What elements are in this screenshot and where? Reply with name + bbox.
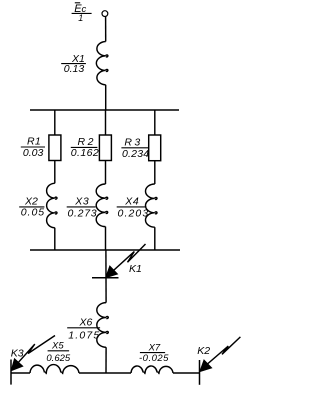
overbar of Ec (75, 2, 80, 4)
bottom line middle segment (79, 372, 131, 374)
fraction bar R2 (71, 146, 98, 148)
svg-text:-0.025: -0.025 (139, 353, 169, 364)
wire bus to R1 (54, 110, 56, 135)
fault location tick K1 (92, 277, 119, 279)
svg-text:0.162: 0.162 (71, 147, 99, 159)
svg-text:K1: K1 (129, 263, 142, 275)
fraction bar R3 (121, 147, 148, 149)
fraction bar Ec/1 (72, 12, 92, 14)
svg-text:0.05: 0.05 (21, 207, 45, 219)
svg-text:0.273: 0.273 (68, 207, 98, 219)
top bus (30, 109, 179, 111)
wire R2 to X3 (105, 161, 107, 185)
svg-text:X3: X3 (74, 196, 89, 208)
wire X2 to bottom bus (54, 228, 56, 250)
wire X6 to bottom line (105, 347, 107, 373)
label X7/-0.025 (139, 343, 169, 365)
wire bus to R3 (154, 110, 156, 135)
label X1/0.13 (64, 53, 85, 75)
wire bus to R2 (105, 110, 107, 135)
label X3/0.273 (68, 196, 98, 220)
label X4/0.203 (118, 196, 150, 220)
arrowhead K1 (106, 266, 118, 278)
svg-text:X5: X5 (51, 341, 64, 352)
svg-text:1: 1 (78, 13, 83, 23)
fraction bar R1 (21, 146, 45, 148)
label R2/0.162 (71, 136, 99, 159)
fraction bar X2 (19, 206, 44, 208)
label R3/0.234 (122, 137, 149, 160)
label R1/0.03 (23, 136, 44, 160)
resistor R3 (149, 135, 161, 161)
source label Ec/1 (74, 3, 86, 23)
wire from terminal to X1 (105, 17, 107, 42)
svg-text:X6: X6 (79, 316, 93, 328)
inductor X2 (47, 183, 57, 227)
arrowhead K2 (200, 360, 212, 372)
label K3 (11, 347, 24, 359)
fault bolt K2 (200, 337, 241, 371)
wire R1 to X2 (54, 161, 56, 184)
bottom line right segment (173, 372, 200, 374)
inductor X1 (96, 42, 108, 85)
fraction bar X4 (117, 206, 147, 208)
svg-text:K2: K2 (197, 345, 210, 357)
wire X3 to bottom bus (105, 227, 107, 250)
label X5/0.625 (46, 341, 70, 364)
wire R3 to X4 (154, 161, 156, 184)
inductor X6 (97, 303, 109, 348)
wire bottom bus to X6 (105, 250, 107, 303)
resistor R1 (49, 135, 61, 161)
fault bolt K1 (106, 244, 145, 277)
svg-text:0.13: 0.13 (64, 63, 85, 75)
bottom line left segment (11, 372, 30, 374)
arrowhead K3 (11, 359, 23, 371)
label X2/0.05 (21, 196, 45, 219)
fraction bar X1 (61, 63, 86, 65)
svg-text:R1: R1 (27, 136, 41, 148)
label X6/1.075 (68, 316, 100, 341)
fraction bar X6 (67, 327, 100, 329)
inductor X4 (146, 184, 158, 227)
svg-text:0.03: 0.03 (23, 147, 44, 159)
svg-text:0.625: 0.625 (46, 353, 70, 364)
svg-text:R3: R3 (124, 137, 142, 149)
wire X4 to bottom bus (154, 227, 156, 250)
fault location dash K3 (10, 360, 12, 385)
inductor X7 (131, 366, 173, 374)
label K1 (129, 263, 142, 275)
svg-text:X4: X4 (124, 196, 139, 208)
fraction bar X7 (140, 352, 165, 354)
svg-text:X7: X7 (148, 343, 161, 354)
fraction bar X3 (67, 206, 96, 208)
wire X1 to top bus (105, 85, 107, 110)
fraction bar X5 (48, 350, 70, 352)
svg-text:1.075: 1.075 (68, 330, 100, 342)
svg-text:0.203: 0.203 (118, 208, 150, 220)
terminal circle (node 1) (102, 11, 108, 17)
svg-text:0.234: 0.234 (122, 148, 149, 160)
fault location dash K2 (199, 360, 201, 385)
inductor X3 (96, 184, 108, 227)
resistor R2 (99, 135, 111, 161)
fault bolt K3 (11, 336, 55, 371)
svg-text:K3: K3 (11, 347, 24, 359)
bottom bus (30, 249, 180, 251)
label K2 (197, 345, 210, 357)
inductor X5 (30, 365, 79, 375)
